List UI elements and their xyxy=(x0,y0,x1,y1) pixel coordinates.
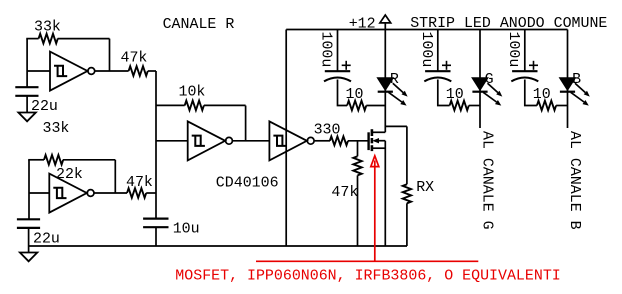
svg-text:AL CANALE B: AL CANALE B xyxy=(566,131,582,230)
wire U1D output xyxy=(315,140,330,142)
svg-text:47k: 47k xyxy=(331,185,358,201)
wire supply left vertical xyxy=(285,30,287,247)
wire osc-R feedback top right xyxy=(58,38,110,40)
op-amp U1C Schmitt inverter xyxy=(188,121,226,160)
wire LED R branch vertical xyxy=(384,30,386,133)
resistor RX xyxy=(403,184,411,203)
wire rail to cap 100u (R) xyxy=(337,30,339,72)
wire osc-B output xyxy=(94,192,127,194)
wire 10k feedback right vertical xyxy=(245,106,247,141)
svg-text:100u: 100u xyxy=(318,32,334,68)
capacitor 100u (G) xyxy=(425,70,450,72)
resistor 10 (B) xyxy=(537,101,556,111)
wire osc-B feedback top left xyxy=(28,159,44,161)
wire 330 to gate xyxy=(348,140,369,142)
ground (osc B) xyxy=(20,253,37,262)
transistor Q1 body arrow xyxy=(372,138,385,143)
svg-text:CANALE R: CANALE R xyxy=(163,17,235,33)
ground (osc R) xyxy=(18,113,35,122)
resistor 47k (osc B out) xyxy=(127,188,146,198)
resistor 47k (gate pulldown) xyxy=(353,156,361,175)
svg-text:CD40106: CD40106 xyxy=(216,175,279,191)
wire RX to bottom rail xyxy=(406,203,408,246)
svg-text:MOSFET, IPP060N06N, IRFB3806,: MOSFET, IPP060N06N, IRFB3806, O EQUIVALE… xyxy=(175,268,560,284)
wire osc-R output xyxy=(95,70,129,72)
svg-text:47k: 47k xyxy=(121,51,148,67)
resistor 10 (R) xyxy=(347,101,366,111)
wire rail to cap 100u (G) xyxy=(437,30,439,72)
wire 10k feedback left xyxy=(156,104,185,106)
wire U1C out to U1D in xyxy=(233,140,269,142)
svg-text:B: B xyxy=(572,72,581,88)
wire bottom ground rail xyxy=(29,245,407,247)
wire +12 top rail xyxy=(286,29,567,31)
svg-text:33k: 33k xyxy=(43,121,70,137)
wire rail to cap 100u (B) xyxy=(524,30,526,72)
svg-text:10k: 10k xyxy=(179,85,206,101)
transistor Q1 source wire xyxy=(372,147,385,149)
wire osc-B inverter input xyxy=(29,192,49,194)
svg-text:33k: 33k xyxy=(34,19,61,35)
wire LED G branch vertical xyxy=(479,30,481,129)
op-amp U1A Schmitt inverter xyxy=(50,52,88,91)
wire 10 ohm to LED node (B) xyxy=(556,105,567,107)
capacitor 10u (node A) xyxy=(143,218,168,220)
wire 47k to node A lower xyxy=(146,192,156,194)
wire cap to 10 ohm (G) xyxy=(438,80,450,106)
wire osc-R feedback left vertical xyxy=(26,39,28,88)
op-amp U1B Schmitt inverter xyxy=(49,174,87,213)
svg-text:+12: +12 xyxy=(349,16,376,32)
resistor 22k (osc B feedback) xyxy=(44,155,63,165)
wire mixer inverter input xyxy=(156,140,188,142)
svg-text:10: 10 xyxy=(346,87,364,103)
svg-text:10: 10 xyxy=(533,87,551,103)
transistor Q1 MOSFET gate bar xyxy=(367,132,369,150)
wire osc-B feedback right vertical xyxy=(114,160,116,193)
capacitor 22u (osc R) xyxy=(15,86,38,88)
svg-text:G: G xyxy=(485,72,494,88)
capacitor 100u (B) xyxy=(512,70,537,72)
svg-text:100u: 100u xyxy=(505,32,521,68)
LED R xyxy=(377,78,393,91)
wire cap to 10 ohm (R) xyxy=(338,80,348,106)
svg-text:22u: 22u xyxy=(33,231,60,247)
wire 10 ohm to LED node (R) xyxy=(366,105,385,107)
resistor 47k (osc R out) xyxy=(129,66,148,76)
wire 47k to node A xyxy=(148,70,156,72)
LED B xyxy=(560,78,576,91)
wire cap to 10 ohm (B) xyxy=(525,80,537,106)
power +12 arrow xyxy=(380,15,391,30)
resistor 330 (gate) xyxy=(330,136,348,145)
wire osc-R inverter input xyxy=(27,70,50,72)
svg-text:10: 10 xyxy=(446,87,464,103)
wire drain to RX branch xyxy=(385,125,407,127)
wire gate pulldown vertical xyxy=(357,141,359,157)
transistor Q1 drain wire xyxy=(372,131,385,133)
wire cap to ground (osc B) xyxy=(28,228,30,253)
svg-text:330: 330 xyxy=(314,122,341,138)
resistor 10k (mixer feedback) xyxy=(185,101,204,111)
capacitor 22u (osc B) xyxy=(17,218,40,220)
wire 10k feedback right xyxy=(204,104,246,106)
wire 10u to bottom rail xyxy=(155,227,157,246)
resistor 33k (osc R feedback) xyxy=(39,34,58,44)
transistor Q1 channel segments xyxy=(371,129,374,151)
wire osc-B feedback top right xyxy=(63,159,115,161)
svg-text:10u: 10u xyxy=(173,221,200,237)
annotation red arrow xyxy=(371,156,379,261)
wire cap to ground (osc R) xyxy=(26,96,28,113)
svg-text:R: R xyxy=(390,72,399,88)
wire 47k to bottom rail xyxy=(357,175,359,246)
svg-text:22k: 22k xyxy=(56,167,83,183)
wire node A vertical bus xyxy=(155,71,157,219)
wire 10 ohm to LED node (G) xyxy=(469,105,480,107)
svg-text:STRIP LED ANODO COMUNE: STRIP LED ANODO COMUNE xyxy=(410,16,607,32)
wire osc-R feedback top left xyxy=(26,38,38,40)
svg-text:AL CANALE G: AL CANALE G xyxy=(478,131,494,230)
wire source to bottom rail xyxy=(384,141,386,246)
svg-text:100u: 100u xyxy=(418,32,434,68)
wire LED B branch vertical xyxy=(567,30,569,129)
svg-text:47k: 47k xyxy=(126,175,153,191)
op-amp U1D Schmitt inverter xyxy=(269,121,307,160)
capacitor 100u (R) xyxy=(325,70,350,72)
wire RX top vertical xyxy=(406,126,408,184)
wire osc-R feedback right vertical xyxy=(109,39,111,71)
LED G xyxy=(472,78,488,91)
wire osc-B feedback left vertical xyxy=(28,160,30,220)
svg-text:RX: RX xyxy=(416,180,434,196)
resistor 10 (G) xyxy=(450,101,469,111)
annotation red underline xyxy=(256,260,478,262)
